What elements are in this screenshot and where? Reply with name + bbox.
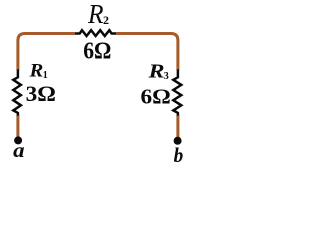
svg-text:b: b (174, 143, 184, 167)
svg-text:1: 1 (43, 70, 48, 81)
svg-text:6Ω: 6Ω (141, 85, 171, 109)
svg-text:a: a (13, 138, 24, 162)
svg-text:R: R (28, 61, 43, 82)
svg-text:6Ω: 6Ω (83, 37, 111, 64)
svg-text:3Ω: 3Ω (26, 81, 56, 106)
svg-text:3: 3 (164, 71, 169, 82)
svg-text:2: 2 (103, 13, 109, 27)
svg-text:R: R (147, 61, 164, 83)
svg-text:R: R (87, 0, 104, 29)
